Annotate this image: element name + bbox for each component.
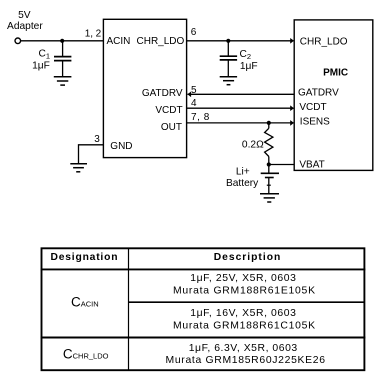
svg-text:1μF: 1μF — [32, 60, 50, 71]
battery Li+ — [261, 165, 279, 194]
node junction C1 — [60, 39, 64, 43]
svg-text:Battery: Battery — [226, 178, 259, 189]
svg-text:1μF, 6.3V, X5R, 0603: 1μF, 6.3V, X5R, 0603 — [189, 343, 298, 354]
resistor 0.2 ohm — [265, 123, 273, 165]
ground for C1 — [54, 77, 72, 85]
svg-text:CHR_LDO: CHR_LDO — [137, 36, 185, 47]
svg-text:3: 3 — [94, 134, 100, 145]
svg-text:1μF, 25V, X5R, 0603: 1μF, 25V, X5R, 0603 — [190, 273, 296, 284]
label C2 1uF — [240, 49, 258, 72]
svg-text:GATDRV: GATDRV — [142, 88, 183, 99]
svg-text:GATDRV: GATDRV — [298, 88, 339, 99]
svg-text:Li+: Li+ — [236, 166, 250, 177]
svg-text:VCDT: VCDT — [155, 105, 182, 116]
table cell row2 description — [173, 308, 315, 331]
svg-text:1μF: 1μF — [240, 61, 258, 72]
label C1 1uF — [32, 49, 50, 72]
wire OUT to ISENS net — [187, 122, 294, 124]
node junction C2 — [226, 39, 230, 43]
capacitor C1 — [54, 41, 71, 77]
svg-text:Murata GRM188R61E105K: Murata GRM188R61E105K — [173, 286, 315, 297]
ground for U1 GND — [70, 164, 87, 172]
wire ACIN input — [21, 40, 104, 42]
IC U1 charger — [103, 19, 186, 157]
wire CHR_LDO net — [187, 40, 294, 42]
ground for C2 — [220, 77, 237, 85]
label Li+ Battery — [226, 166, 259, 189]
svg-text:4: 4 — [191, 98, 197, 109]
capacitor C2 — [220, 41, 237, 77]
svg-text:1μF, 16V, X5R, 0603: 1μF, 16V, X5R, 0603 — [190, 308, 296, 319]
table cell row3 description — [166, 343, 326, 366]
svg-text:7, 8: 7, 8 — [191, 112, 210, 123]
wire GND net — [79, 145, 104, 163]
svg-text:GND: GND — [110, 141, 132, 152]
svg-text:ACIN: ACIN — [107, 36, 131, 47]
wire VBAT net — [269, 164, 294, 166]
svg-text:VCDT: VCDT — [299, 102, 326, 113]
node junction resistor top — [267, 121, 271, 125]
table frame — [41, 248, 366, 370]
table cell row1 description — [173, 273, 315, 297]
terminal 5V input — [15, 38, 21, 44]
arrowhead into PMIC ISENS — [290, 120, 294, 126]
arrowhead into PMIC VCDT — [290, 105, 294, 111]
svg-text:Murata GRM188R61C105K: Murata GRM188R61C105K — [173, 320, 315, 331]
svg-text:5V: 5V — [18, 10, 31, 21]
ground for battery — [260, 194, 279, 202]
svg-text:0.2Ω: 0.2Ω — [242, 140, 264, 151]
svg-text:Description: Description — [214, 252, 281, 263]
svg-text:Adapter: Adapter — [7, 21, 43, 32]
svg-text:1, 2: 1, 2 — [85, 28, 102, 39]
svg-text:ISENS: ISENS — [300, 117, 330, 128]
IC U2 PMIC — [294, 20, 373, 171]
svg-text:6: 6 — [191, 27, 197, 38]
wire GATDRV net — [188, 93, 295, 95]
svg-text:CHR_LDO: CHR_LDO — [300, 36, 348, 47]
arrowhead into PMIC CHR_LDO — [290, 38, 294, 44]
wire VCDT net — [187, 107, 294, 109]
svg-text:PMIC: PMIC — [323, 68, 348, 79]
arrowhead into U1 GATDRV — [187, 92, 191, 98]
svg-text:Designation: Designation — [51, 252, 118, 263]
svg-text:Murata GRM185R60J225KE26: Murata GRM185R60J225KE26 — [166, 355, 326, 366]
node junction VBAT — [267, 162, 271, 166]
label 5V Adapter — [7, 10, 43, 32]
svg-text:OUT: OUT — [161, 122, 182, 133]
svg-text:VBAT: VBAT — [299, 159, 324, 170]
